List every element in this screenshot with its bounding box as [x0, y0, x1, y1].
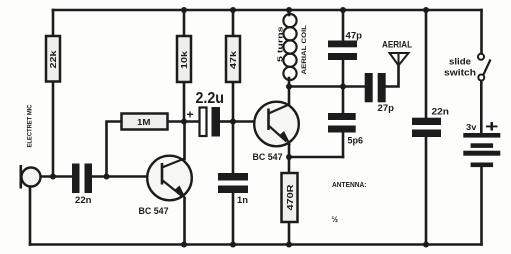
node dot 22n bottom [423, 242, 429, 248]
wire 47k top [232, 10, 235, 36]
node dot 22n top [423, 7, 429, 13]
wire mic to bottom rail [29, 186, 32, 245]
slide switch [478, 54, 491, 81]
wire 27p to antenna [386, 66, 399, 87]
node F dot (coil bottom / Q2 collector) [286, 84, 292, 90]
wire 47k node to Q2 base [233, 120, 255, 123]
capacitor 5p6 [328, 113, 363, 146]
wire 47p bottom [342, 60, 345, 87]
wire Q1 emitter [183, 198, 186, 245]
battery 3V [463, 133, 500, 167]
svg-text:BC 547: BC 547 [253, 152, 283, 163]
wire 10k bottom [183, 82, 186, 122]
svg-text:1M: 1M [137, 117, 151, 127]
wire coil bottom stub [288, 78, 291, 87]
capacitor 22n (right) [412, 107, 449, 138]
svg-text:slide: slide [449, 57, 471, 67]
wire node to 2.2u [184, 120, 199, 123]
svg-text:22n: 22n [75, 195, 92, 205]
svg-text:1n: 1n [237, 195, 248, 205]
wire switch to battery [480, 81, 483, 134]
capacitor 1n [218, 173, 248, 205]
node dot coil top [286, 7, 292, 13]
svg-text:AERIAL COIL: AERIAL COIL [301, 25, 308, 75]
node dot 47k top [230, 7, 236, 13]
antenna symbol [390, 53, 409, 66]
svg-text:+: + [485, 117, 499, 136]
svg-text:+: + [187, 108, 194, 122]
node E dot (Q2 emitter / 5p6 / 470R) [286, 154, 292, 160]
svg-text:47p: 47p [346, 31, 363, 41]
node dot 10k top [181, 7, 187, 13]
wire bottom rail [30, 243, 482, 246]
capacitor 22n (mic coupling) [72, 164, 92, 206]
wire 1n bottom [232, 193, 235, 245]
svg-text:AERIAL: AERIAL [382, 40, 412, 51]
svg-text:3v: 3v [466, 122, 477, 132]
wire 22n right top [425, 10, 428, 118]
resistor 10k [177, 36, 191, 82]
svg-text:22k: 22k [48, 50, 58, 68]
wire 1M left leg [107, 122, 122, 177]
node D dot (47k / 2.2u / 1n / Q2 base) [230, 119, 236, 125]
resistor 22k [46, 36, 60, 82]
svg-text:10k: 10k [179, 51, 189, 69]
resistor 47k [226, 36, 240, 82]
wire 1n top [232, 122, 235, 174]
node C dot (10k / 1M / 2.2u / Q1 collector) [181, 119, 187, 125]
node A dot (22k / mic) [50, 174, 56, 180]
svg-text:ANTENNA:: ANTENNA: [332, 180, 367, 189]
capacitor 47p [328, 31, 363, 61]
electret mic [20, 165, 41, 189]
wire 22k bottom [52, 82, 55, 177]
svg-text:½: ½ [332, 215, 339, 224]
wire right column to switch [480, 10, 483, 54]
wire 470R top [288, 157, 291, 173]
wire 22n right bottom [425, 137, 428, 245]
wire 47p top [342, 10, 345, 41]
wire 22k top [52, 10, 55, 36]
wire top rail [53, 9, 482, 12]
wire 47k bottom [232, 82, 235, 122]
wire 470R bottom [288, 222, 291, 245]
svg-text:switch: switch [444, 68, 476, 78]
capacitor 27p [365, 73, 395, 113]
wire mic row [41, 175, 72, 178]
svg-text:470R: 470R [285, 183, 295, 210]
wire 10k top [183, 10, 186, 36]
svg-text:22n: 22n [432, 107, 450, 117]
inductor L1 aerial coil (5 turns) [283, 14, 296, 80]
wire oscillator node row [289, 85, 365, 88]
svg-text:BC 547: BC 547 [139, 206, 169, 217]
wire 2.2u to 47k node [220, 120, 233, 123]
svg-text:47k: 47k [228, 51, 238, 69]
wire 5p6 bottom [342, 133, 345, 158]
resistor 470R [282, 173, 298, 222]
capacitor 2.2u electrolytic [187, 90, 225, 137]
node dot 47p top [340, 7, 346, 13]
wire battery to bottom rail [480, 167, 483, 245]
node dot Q1 emitter bottom [181, 242, 187, 248]
wire coil top stub [288, 10, 291, 15]
wire Q2 collector [288, 87, 291, 105]
wire 1M to node [168, 120, 185, 123]
svg-text:ELECTRET MIC: ELECTRET MIC [27, 104, 34, 147]
wire 5p6 top [342, 87, 345, 114]
wire emitter row to 5p6 [289, 156, 343, 159]
node B dot (22n / 1M / Q1 base) [104, 174, 110, 180]
transistor Q1 BC547 [147, 156, 192, 201]
svg-text:5 turns: 5 turns [276, 27, 285, 63]
resistor 1M [122, 114, 168, 130]
wire Q2 emitter [288, 144, 291, 157]
node dot 470R bottom [286, 242, 292, 248]
svg-text:27p: 27p [378, 103, 395, 113]
wire Q1 collector [183, 122, 186, 160]
svg-text:5p6: 5p6 [348, 136, 364, 146]
node G dot (47p / 5p6 / 27p) [340, 84, 346, 90]
svg-text:2.2u: 2.2u [196, 90, 225, 107]
transistor Q2 BC547 [254, 102, 299, 147]
node dot 1n bottom [230, 242, 236, 248]
